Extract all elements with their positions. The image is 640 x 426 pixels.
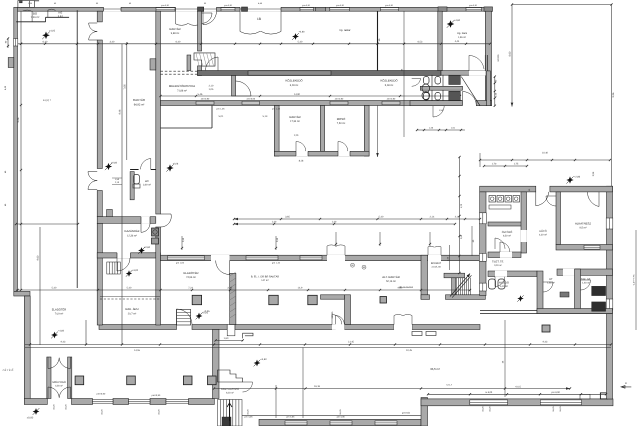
svg-text:16,25: 16,25 [53,404,56,410]
svg-text:7,50 m²: 7,50 m² [337,122,346,125]
svg-text:2,14: 2,14 [430,216,435,219]
svg-text:14,90: 14,90 [294,93,301,96]
svg-text:B. ÉL. I. DR BR RAKTÁR: B. ÉL. I. DR BR RAKTÁR [251,275,279,279]
svg-text:ALT. RAKTÁR: ALT. RAKTÁR [382,275,400,279]
svg-text:BEJÁRAT: BEJÁRAT [431,262,442,265]
svg-text:9,46: 9,46 [17,117,20,122]
svg-text:5,40: 5,40 [298,40,303,43]
svg-text:16,25: 16,25 [157,409,160,415]
svg-text:8,60: 8,60 [509,51,512,56]
svg-text:16,16: 16,16 [314,385,321,388]
svg-text:t é r k ő: t é r k ő [3,368,14,372]
svg-text:2,10/1,38: 2,10/1,38 [431,265,441,268]
svg-text:am=0,90: am=0,90 [335,97,344,100]
svg-text:5,46: 5,46 [198,93,203,96]
svg-text:HŰTŐ: HŰTŐ [539,229,546,233]
svg-text:pm=0,90: pm=0,90 [97,392,106,395]
svg-text:pm 4,05: pm 4,05 [286,416,295,419]
svg-text:BÜ: BÜ [33,12,37,16]
svg-text:1,96 m²: 1,96 m² [458,36,466,39]
svg-text:36,5 m²: 36,5 m² [430,367,440,371]
svg-text:RAKTÁR: RAKTÁR [133,98,146,102]
svg-text:KÖZLEKEDŐ: KÖZLEKEDŐ [285,79,303,83]
svg-text:1,40 m²: 1,40 m² [582,281,590,284]
svg-text:14,9: 14,9 [298,287,303,290]
svg-text:20,7 m²: 20,7 m² [128,313,137,316]
svg-text:gm=0,90: gm=0,90 [385,4,394,7]
svg-text:ELADÓTÉR: ELADÓTÉR [183,271,198,275]
svg-text:m 6,00: m 6,00 [485,391,493,394]
svg-text:+0,60: +0,60 [111,162,118,165]
svg-text:ET: ET [549,278,553,281]
svg-text:10,40: 10,40 [542,152,549,155]
svg-text:pm 1,05: pm 1,05 [217,108,226,111]
svg-text:9,43: 9,43 [543,341,548,344]
svg-text:gerenda: gerenda [402,412,411,415]
svg-text:147 m²: 147 m² [261,279,269,282]
svg-text:9,46: 9,46 [119,109,122,114]
svg-text:16,25: 16,25 [339,409,342,415]
svg-text:7,56 m²: 7,56 m² [31,16,40,19]
svg-text:KAZÁNHÁZ: KAZÁNHÁZ [125,229,140,233]
svg-text:±0,00: ±0,00 [27,417,34,420]
svg-text:1,40: 1,40 [272,221,277,224]
svg-text:gm=0,90: gm=0,90 [302,4,311,7]
svg-text:16,25: 16,25 [559,406,562,412]
svg-text:16,25: 16,25 [482,406,485,412]
svg-text:+4,60: +4,60 [454,19,461,22]
svg-text:94,92 m²: 94,92 m² [134,104,145,107]
svg-text:16,25: 16,25 [552,406,555,412]
svg-text:gm=0,90: gm=0,90 [224,4,233,7]
svg-text:2,10: 2,10 [209,84,214,87]
svg-text:16,25: 16,25 [65,404,68,410]
svg-text:-0,06: -0,06 [173,163,179,166]
svg-text:+0,60: +0,60 [144,246,151,249]
svg-text:1,60: 1,60 [224,337,229,340]
svg-text:+4,60: +4,60 [58,330,65,333]
svg-text:52,16 m²: 52,16 m² [386,280,396,283]
svg-text:+3,00: +3,00 [132,269,139,272]
svg-text:5,40: 5,40 [379,216,384,219]
svg-text:+2,86: +2,86 [574,176,581,179]
svg-text:16,25: 16,25 [101,409,104,415]
svg-text:90/205: 90/205 [497,54,500,62]
svg-text:12,36 m²: 12,36 m² [127,235,137,238]
svg-text:9,06: 9,06 [612,92,615,97]
svg-text:MELEGÍTŐKONYHA: MELEGÍTŐKONYHA [169,84,195,88]
svg-text:3,00 m²: 3,00 m² [143,184,151,187]
svg-text:9,88 m²: 9,88 m² [171,32,180,35]
svg-text:5,10 m²: 5,10 m² [500,285,508,288]
svg-text:10,45: 10,45 [406,349,413,352]
svg-text:9,60: 9,60 [37,255,40,260]
svg-text:+4,60: +4,60 [260,358,267,361]
svg-text:5,13: 5,13 [263,115,268,118]
svg-text:6,40: 6,40 [176,40,181,43]
svg-text:+0,15: +0,15 [515,386,522,389]
svg-text:3,40: 3,40 [110,40,115,43]
svg-text:RAK. ÁRU: RAK. ÁRU [125,307,138,311]
svg-text:14,55: 14,55 [134,349,141,352]
svg-text:16,25: 16,25 [247,409,250,415]
svg-text:74,9 m²: 74,9 m² [55,313,64,316]
svg-text:6,40: 6,40 [43,40,48,43]
svg-text:gm 1,10: gm 1,10 [272,261,281,264]
svg-text:4,20 m²: 4,20 m² [55,385,63,388]
svg-text:9,5 m²: 9,5 m² [579,227,586,230]
svg-text:8,18: 8,18 [299,160,304,163]
svg-text:pm 4,05: pm 4,05 [245,416,254,419]
svg-text:+4,60: +4,60 [299,31,306,34]
svg-text:-1,4?? +7%: -1,4?? +7% [633,274,636,285]
svg-text:gm=0,90: gm=0,90 [469,4,478,7]
svg-text:1B: 1B [257,17,261,21]
svg-text:2,145: 2,145 [348,341,355,344]
svg-text:-u=1,7: -u=1,7 [446,384,453,387]
svg-text:4,44: 4,44 [455,40,460,43]
svg-text:16,25: 16,25 [489,406,492,412]
svg-text:RAKTÁR: RAKTÁR [169,27,180,31]
svg-text:3,65: 3,65 [285,216,290,219]
svg-text:+0,05: +0,05 [203,310,210,313]
svg-text:1,40: 1,40 [332,221,337,224]
svg-text:5,08 m²: 5,08 m² [385,84,394,87]
svg-text:74,96 m²: 74,96 m² [186,276,196,279]
svg-text:17,34 m²: 17,34 m² [290,120,300,123]
svg-text:RAKTÁR: RAKTÁR [289,115,300,119]
svg-text:am=0,90: am=0,90 [247,97,256,100]
svg-text:5,01: 5,01 [219,115,224,118]
svg-text:1,75: 1,75 [514,163,519,166]
svg-text:Hg. Dani: Hg. Dani [457,32,468,35]
svg-text:71,88 m²: 71,88 m² [177,90,187,93]
svg-text:TISZT. TE.: TISZT. TE. [492,261,504,264]
svg-text:3,28 m²: 3,28 m² [290,84,299,87]
svg-text:7,06: 7,06 [123,84,126,90]
svg-text:2,86: 2,86 [592,171,595,176]
svg-text:gm=0,90: gm=0,90 [161,4,170,7]
svg-text:MOSDÓ: MOSDÓ [499,281,509,285]
svg-text:ÖLTÖZŐ: ÖLTÖZŐ [502,230,512,234]
svg-text:HG: HG [58,12,62,15]
svg-text:7,24: 7,24 [188,287,193,290]
svg-text:6,10 m²: 6,10 m² [226,392,234,395]
svg-text:am=0,90: am=0,90 [387,97,396,100]
svg-text:pm 1,10: pm 1,10 [272,108,281,111]
svg-text:1,70: 1,70 [492,163,497,166]
svg-text:pm 6,00: pm 6,00 [552,391,561,394]
svg-text:Ny. raktár: Ny. raktár [339,29,350,32]
svg-text:SZÉLFOGÓ: SZÉLFOGÓ [52,380,66,384]
svg-text:3,10 m²: 3,10 m² [494,264,502,267]
svg-text:ELADÓTÉR: ELADÓTÉR [52,308,67,312]
svg-text:FAGYLALTOZÓ: FAGYLALTOZÓ [221,387,239,391]
svg-text:gm=0,90: gm=0,90 [336,4,345,7]
svg-text:4,20 m²: 4,20 m² [539,234,547,237]
svg-text:9,60: 9,60 [398,287,403,290]
svg-text:5,40: 5,40 [127,287,132,290]
svg-text:1,50 m²: 1,50 m² [547,281,555,284]
svg-text:pm=0,90: pm=0,90 [152,394,161,397]
svg-text:6,53: 6,53 [418,40,423,43]
svg-text:2,42: 2,42 [58,15,64,18]
svg-text:6,50 m²: 6,50 m² [503,235,511,238]
svg-text:1,20: 1,20 [294,134,299,137]
svg-text:1,05: 1,05 [209,88,214,91]
svg-text:+4,05: +4,05 [49,30,56,33]
svg-text:KÖZLEKEDŐ: KÖZLEKEDŐ [380,79,398,83]
svg-text:9,43: 9,43 [61,341,66,344]
svg-text:gm 1,05: gm 1,05 [176,261,185,264]
svg-text:ALKATRÉSZ: ALKATRÉSZ [575,222,591,226]
svg-text:am=0,90: am=0,90 [201,97,210,100]
svg-text:3,88: 3,88 [227,287,232,290]
svg-text:5,40: 5,40 [52,287,57,290]
svg-text:TAK. SZ.: TAK. SZ. [581,278,591,281]
svg-text:pm 4,05: pm 4,05 [337,416,346,419]
svg-text:MOSÓ: MOSÓ [337,117,346,121]
svg-text:54,(2) ?: 54,(2) ? [43,99,52,102]
